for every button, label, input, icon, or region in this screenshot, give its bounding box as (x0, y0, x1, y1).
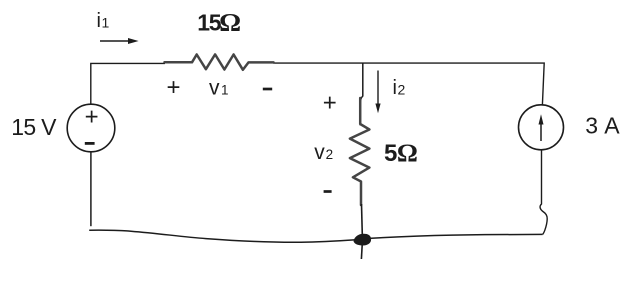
svg-text:3 A: 3 A (585, 113, 620, 139)
svg-text:Ω: Ω (219, 9, 241, 36)
svg-text:+: + (323, 89, 337, 116)
wire: middle vertical from R2 to bottom node (361, 204, 364, 235)
label - polarity of v1 (263, 88, 272, 91)
label v1 voltage (209, 77, 229, 100)
svg-text:2: 2 (326, 147, 334, 162)
label i1 current (97, 10, 110, 32)
resistor R1 value label 15Ω (197, 9, 241, 36)
svg-text:+: + (167, 74, 181, 101)
svg-text:v: v (314, 141, 325, 164)
current source IS 3A (circle with up arrow) (519, 105, 564, 150)
wire: left vertical below source (90, 152, 92, 226)
svg-text:v: v (209, 77, 220, 100)
resistor R1 15Ω (horizontal zigzag) (165, 54, 274, 69)
arrow: i1 direction arrow (100, 38, 139, 44)
svg-text:i: i (393, 77, 397, 99)
label - polarity of v2 (324, 190, 332, 193)
svg-text:15 V: 15 V (11, 114, 57, 140)
resistor R2 5Ω (vertical zigzag) (350, 98, 370, 205)
svg-text:1: 1 (221, 82, 229, 97)
wire: top horizontal net from V-source to current source (91, 63, 544, 105)
svg-text:Ω: Ω (397, 140, 418, 167)
svg-text:15: 15 (197, 9, 221, 35)
wire: bottom hand-drawn net (left half) (89, 230, 356, 242)
svg-text:5: 5 (384, 140, 397, 167)
wire: right vertical below current source with squiggle (540, 151, 547, 235)
svg-text:1: 1 (102, 14, 110, 30)
wire: bottom hand-drawn net (right half) (369, 234, 543, 238)
label i2 current (393, 77, 406, 99)
svg-text:i: i (97, 10, 101, 32)
svg-text:2: 2 (398, 81, 406, 97)
wire: stub below bottom node (360, 243, 363, 259)
label v2 voltage (314, 141, 333, 164)
node: bottom junction dot (354, 234, 372, 246)
wire: middle vertical from top net to R2 (360, 63, 363, 126)
voltage source VS 15V (circle with +/-) (67, 103, 115, 151)
svg-text:+: + (85, 103, 99, 130)
arrow: i2 direction arrow (375, 71, 380, 114)
